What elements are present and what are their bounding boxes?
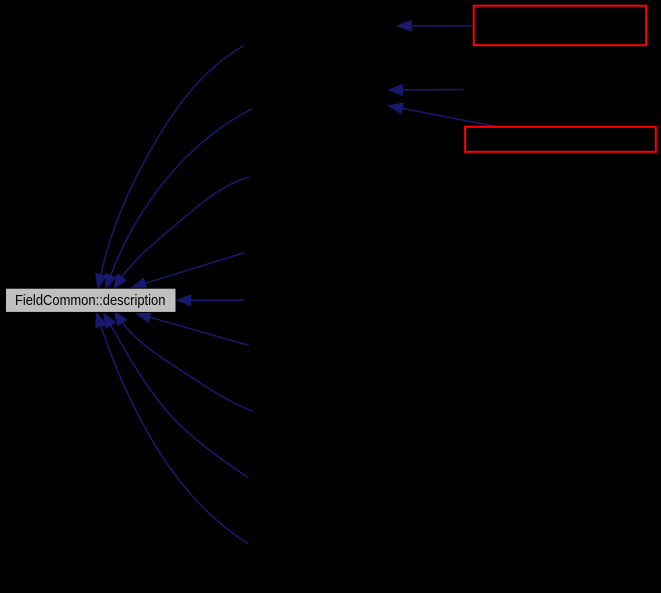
edge caller-2 -> FieldCommon::description (top curve 2) bbox=[106, 109, 252, 289]
edge caller-4 -> FieldCommon::description (straight upper) bbox=[132, 253, 245, 289]
edge caller-6 -> FieldCommon::description (straight lower) bbox=[136, 312, 248, 345]
svg-text:FieldCommon::description: FieldCommon::description bbox=[15, 292, 166, 309]
edge caller-1 -> FieldCommon::description (top curve 1) bbox=[96, 46, 243, 288]
edge caller-9 -> FieldCommon::description (bottom curve 3) bbox=[96, 313, 249, 544]
node red-box-1 (truncated caller, red outline) bbox=[474, 6, 647, 46]
edge caller-8 -> FieldCommon::description (bottom curve 2) bbox=[104, 313, 249, 478]
edge caller-3 -> FieldCommon::description (top curve 3) bbox=[114, 177, 249, 289]
edge hidden node -> hidden caller-2 bbox=[389, 85, 464, 96]
edge red-box-1 -> hidden caller-1 bbox=[397, 21, 473, 32]
edge red-box-2 -> hidden caller-2 bbox=[389, 103, 496, 126]
edge caller-5 -> FieldCommon::description (horizontal) bbox=[177, 295, 244, 306]
node FieldCommon::description (current function, grey box) bbox=[6, 288, 177, 312]
edge caller-7 -> FieldCommon::description (bottom curve 1) bbox=[114, 311, 253, 411]
node red-box-2 (truncated caller, red outline) bbox=[465, 127, 656, 152]
